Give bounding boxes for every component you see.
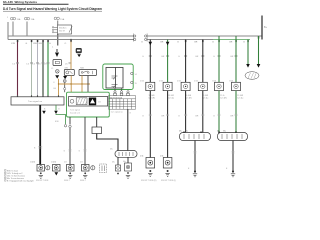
svg-text:GR: GR	[230, 56, 234, 58]
svg-text:turn (L): turn (L)	[168, 96, 174, 99]
svg-text:G: G	[178, 56, 180, 58]
svg-text:GR: GR	[195, 56, 199, 58]
svg-text:GR: GR	[229, 42, 233, 44]
svg-text:G: G	[213, 56, 215, 58]
svg-text:Turn signal sw: Turn signal sw	[28, 100, 42, 103]
svg-text:a: turn signal sw: a: turn signal sw	[109, 110, 123, 113]
svg-text:GB: GB	[39, 43, 43, 45]
svg-text:G: G	[243, 42, 245, 44]
svg-text:15A: 15A	[60, 18, 64, 21]
svg-text:FRONT TURN (R): FRONT TURN (R)	[141, 180, 157, 182]
svg-text:GR: GR	[161, 116, 165, 118]
svg-text:G: G	[177, 42, 179, 44]
svg-text:G: G	[141, 42, 143, 44]
svg-text:G: G	[212, 42, 214, 44]
svg-text:FRONT TURN (L): FRONT TURN (L)	[161, 180, 176, 182]
svg-text:IG1 ST: IG1 ST	[59, 31, 66, 33]
svg-text:G: G	[142, 116, 144, 118]
svg-text:D4(B): D4(B)	[51, 161, 57, 163]
svg-text:G: G	[178, 116, 180, 118]
svg-text:GR: GR	[160, 42, 164, 44]
svg-text:turn (L): turn (L)	[237, 96, 243, 99]
svg-text:IG2 ACC: IG2 ACC	[59, 27, 67, 30]
svg-text:SIDE T: SIDE T	[80, 180, 87, 182]
svg-text:15A: 15A	[31, 18, 35, 21]
svg-text:15A: 15A	[17, 18, 21, 21]
svg-text:GR: GR	[194, 42, 198, 44]
svg-text:GR: GR	[195, 116, 199, 118]
svg-text:D4(B): D4(B)	[30, 161, 36, 163]
svg-text:G: G	[142, 56, 144, 58]
svg-text:8A-136 Wiring Systems: 8A-136 Wiring Systems	[3, 0, 37, 4]
svg-text:turn (R): turn (R)	[220, 96, 227, 99]
svg-text:G: G	[26, 43, 28, 45]
svg-text:GR: GR	[230, 116, 234, 118]
svg-text:D-6 Turn Signal and Hazard War: D-6 Turn Signal and Hazard Warning Light…	[3, 7, 102, 11]
svg-text:FRONT TURN: FRONT TURN	[36, 180, 49, 182]
svg-text:B: If equipped with rear fog l: B: If equipped with rear fog light	[7, 179, 34, 182]
svg-text:G: G	[49, 43, 51, 45]
svg-text:OG: OG	[53, 88, 57, 90]
svg-text:SW POSITION: SW POSITION	[110, 97, 123, 99]
svg-text:G: G	[213, 116, 215, 118]
svg-text:SW: SW	[65, 68, 68, 70]
svg-text:turn (R): turn (R)	[149, 96, 156, 99]
svg-text:SIDE T: SIDE T	[64, 180, 71, 182]
svg-text:Turn signal: Turn signal	[70, 110, 80, 112]
svg-text:GR: GR	[161, 56, 165, 58]
svg-text:hazard unit: hazard unit	[70, 112, 80, 115]
svg-text:O: O	[65, 43, 67, 45]
